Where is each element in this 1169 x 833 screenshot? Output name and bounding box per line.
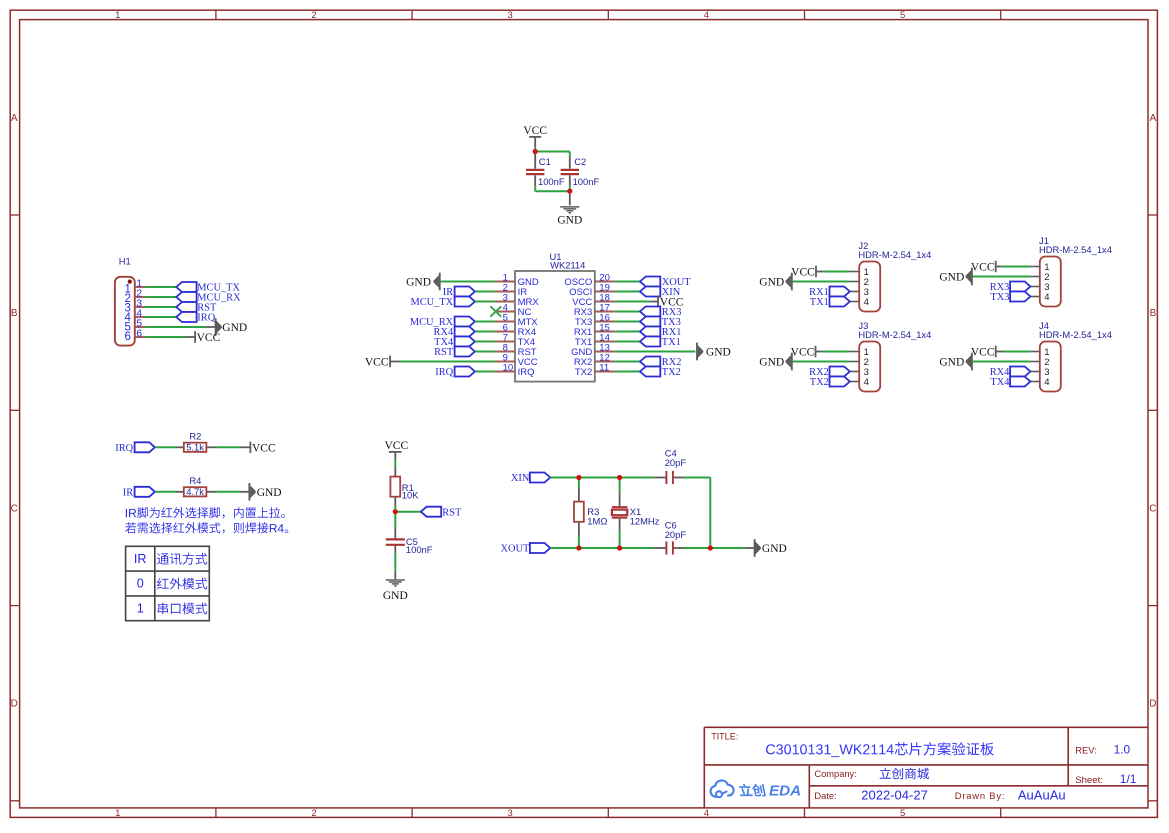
- svg-text:C: C: [1149, 504, 1156, 515]
- svg-text:GND: GND: [222, 322, 247, 334]
- svg-text:GND: GND: [557, 214, 582, 226]
- svg-text:5.1k: 5.1k: [186, 442, 204, 453]
- svg-text:VCC: VCC: [384, 440, 408, 452]
- svg-text:GND: GND: [759, 277, 784, 289]
- svg-text:TX2: TX2: [662, 367, 681, 378]
- svg-text:XOUT: XOUT: [501, 544, 531, 555]
- svg-text:TX4: TX4: [990, 377, 1010, 388]
- svg-text:100nF: 100nF: [538, 176, 565, 187]
- svg-text:R2: R2: [189, 431, 201, 442]
- svg-text:TX1: TX1: [810, 297, 829, 308]
- svg-text:TX2: TX2: [810, 377, 829, 388]
- svg-text:1: 1: [115, 10, 120, 21]
- svg-text:1/1: 1/1: [1120, 772, 1137, 786]
- svg-text:RST: RST: [442, 507, 462, 518]
- svg-text:HDR-M-2.54_1x4: HDR-M-2.54_1x4: [858, 329, 931, 340]
- svg-text:EDA: EDA: [769, 782, 801, 799]
- svg-text:A: A: [1150, 113, 1157, 124]
- svg-text:20pF: 20pF: [665, 529, 687, 540]
- svg-text:5: 5: [900, 10, 905, 21]
- svg-text:4: 4: [1044, 292, 1049, 303]
- svg-text:C1: C1: [539, 156, 551, 167]
- svg-text:RST: RST: [434, 347, 454, 358]
- svg-text:GND: GND: [762, 543, 787, 555]
- svg-text:GND: GND: [257, 487, 282, 499]
- svg-text:VCC: VCC: [971, 262, 995, 274]
- svg-text:VCC: VCC: [971, 347, 995, 359]
- svg-text:R4: R4: [189, 475, 201, 486]
- svg-text:Drawn By:: Drawn By:: [955, 790, 1005, 801]
- svg-text:6: 6: [136, 328, 142, 340]
- svg-text:4: 4: [704, 808, 709, 819]
- svg-text:REV:: REV:: [1075, 744, 1097, 755]
- svg-text:6: 6: [124, 331, 130, 343]
- svg-text:1: 1: [115, 808, 120, 819]
- svg-text:TX1: TX1: [662, 337, 681, 348]
- svg-text:H1: H1: [119, 256, 131, 267]
- svg-text:AuAuAu: AuAuAu: [1018, 787, 1066, 802]
- svg-text:12MHz: 12MHz: [630, 516, 660, 527]
- svg-text:C2: C2: [574, 156, 586, 167]
- svg-text:VCC: VCC: [252, 442, 276, 454]
- svg-text:GND: GND: [939, 272, 964, 284]
- svg-text:4: 4: [864, 377, 869, 388]
- svg-text:20pF: 20pF: [665, 457, 687, 468]
- svg-text:GND: GND: [939, 357, 964, 369]
- svg-text:4: 4: [704, 10, 709, 21]
- svg-text:VCC: VCC: [365, 357, 389, 369]
- svg-text:VCC: VCC: [197, 332, 221, 344]
- svg-text:HDR-M-2.54_1x4: HDR-M-2.54_1x4: [1039, 329, 1112, 340]
- svg-text:Date:: Date:: [814, 791, 836, 801]
- svg-text:TITLE:: TITLE:: [711, 731, 738, 741]
- svg-text:1.0: 1.0: [1114, 742, 1131, 756]
- svg-text:D: D: [11, 699, 18, 710]
- svg-text:IR: IR: [134, 552, 147, 566]
- svg-text:MCU_TX: MCU_TX: [410, 297, 453, 308]
- svg-text:100nF: 100nF: [406, 544, 433, 555]
- svg-text:HDR-M-2.54_1x4: HDR-M-2.54_1x4: [1039, 244, 1112, 255]
- svg-text:2022-04-27: 2022-04-27: [861, 788, 928, 803]
- svg-text:Company:: Company:: [814, 769, 856, 779]
- svg-text:Sheet:: Sheet:: [1075, 775, 1103, 786]
- svg-text:IRQ: IRQ: [518, 367, 535, 378]
- svg-text:C: C: [11, 504, 18, 515]
- svg-text:TX2: TX2: [575, 367, 592, 378]
- svg-text:IRQ: IRQ: [197, 313, 215, 324]
- svg-text:IRQ: IRQ: [435, 367, 453, 378]
- svg-text:IRQ: IRQ: [115, 443, 133, 454]
- svg-text:10: 10: [503, 363, 514, 374]
- svg-text:IR: IR: [123, 488, 133, 499]
- svg-text:VCC: VCC: [791, 267, 815, 279]
- svg-text:11: 11: [599, 363, 609, 374]
- svg-text:3: 3: [508, 10, 513, 21]
- svg-text:GND: GND: [383, 590, 408, 602]
- svg-text:4: 4: [864, 297, 869, 308]
- svg-text:HDR-M-2.54_1x4: HDR-M-2.54_1x4: [858, 249, 931, 260]
- svg-text:2: 2: [311, 808, 316, 819]
- svg-text:10K: 10K: [402, 489, 419, 500]
- svg-text:GND: GND: [759, 357, 784, 369]
- svg-text:A: A: [11, 113, 18, 124]
- svg-text:4: 4: [1044, 377, 1049, 388]
- svg-text:B: B: [1150, 308, 1157, 319]
- svg-text:0: 0: [137, 577, 144, 591]
- svg-text:D: D: [1149, 699, 1156, 710]
- svg-text:B: B: [11, 308, 18, 319]
- svg-text:VCC: VCC: [791, 347, 815, 359]
- svg-text:1MΩ: 1MΩ: [587, 515, 607, 526]
- svg-text:5: 5: [900, 808, 905, 819]
- svg-text:GND: GND: [706, 347, 731, 359]
- svg-text:3: 3: [508, 808, 513, 819]
- svg-text:GND: GND: [406, 277, 431, 289]
- svg-text:2: 2: [311, 10, 316, 21]
- svg-text:TX3: TX3: [990, 292, 1009, 303]
- svg-text:4.7k: 4.7k: [186, 486, 204, 497]
- svg-text:WK2114: WK2114: [550, 259, 585, 270]
- svg-text:100nF: 100nF: [573, 176, 600, 187]
- svg-text:XIN: XIN: [511, 473, 530, 484]
- svg-text:1: 1: [137, 601, 144, 615]
- svg-text:VCC: VCC: [523, 125, 547, 137]
